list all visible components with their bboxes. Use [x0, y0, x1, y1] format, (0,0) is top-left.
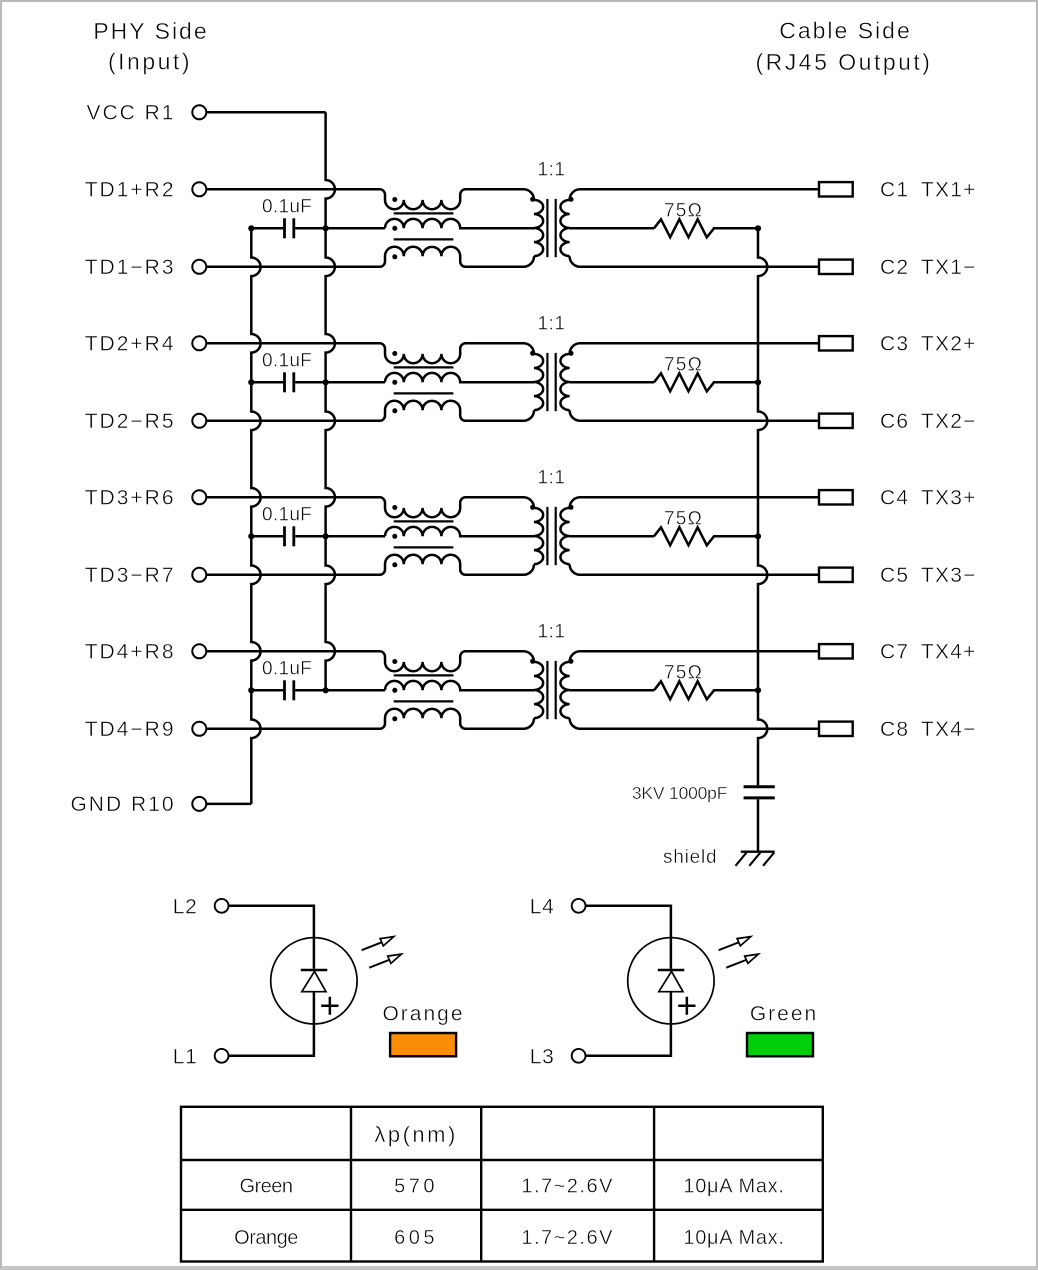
pad C5 TX3− — [819, 568, 853, 582]
transformer 1:1 channel 1 — [530, 159, 573, 257]
wire TX1+ secondary to pad — [570, 189, 819, 200]
pin TD3−R7 — [192, 568, 206, 582]
light arrows Orange — [362, 937, 402, 968]
svg-text:10μA Max.: 10μA Max. — [683, 1176, 784, 1198]
pin L3 — [572, 1049, 586, 1063]
junction resistor output ch1 — [755, 225, 761, 231]
junction resistor output ch2 — [755, 379, 761, 385]
svg-text:Green: Green — [239, 1176, 292, 1198]
svg-text:PHY Side: PHY Side — [93, 18, 208, 44]
svg-text:1.7~2.6V: 1.7~2.6V — [521, 1176, 614, 1198]
wire GND/cap-left vertical bus — [251, 228, 260, 804]
svg-text:75Ω: 75Ω — [664, 508, 703, 529]
pin TD2+R4 — [192, 336, 206, 350]
pad C4 TX3+ — [819, 490, 853, 504]
wire TX4+ secondary to pad — [570, 651, 819, 662]
table row Green — [239, 1176, 784, 1198]
svg-text:L2: L2 — [173, 896, 198, 919]
wire LED to L3 — [586, 992, 671, 1056]
svg-text:TD2−R5: TD2−R5 — [85, 410, 176, 433]
svg-text:TD4−R9: TD4−R9 — [85, 718, 176, 741]
wire collector vertical bus (to shield cap) — [758, 228, 767, 785]
junction VCC / center tap ch1 — [323, 225, 329, 231]
resistor 75Ω channel 4 — [570, 662, 758, 699]
svg-text:L1: L1 — [173, 1046, 198, 1069]
svg-text:TX3−: TX3− — [921, 564, 977, 587]
svg-text:L3: L3 — [530, 1046, 555, 1069]
transformer 1:1 channel 3 — [530, 467, 573, 565]
LED Orange — [271, 938, 357, 1024]
wire TX3- secondary to pad — [570, 564, 819, 575]
svg-text:TD2+R4: TD2+R4 — [85, 333, 176, 356]
svg-text:1:1: 1:1 — [538, 159, 566, 180]
svg-text:C2: C2 — [880, 256, 909, 279]
svg-text:(Input): (Input) — [108, 49, 192, 75]
wire TD4- to choke — [206, 728, 376, 731]
svg-text:C5: C5 — [880, 564, 909, 587]
svg-text:TX1+: TX1+ — [921, 179, 977, 202]
svg-text:VCC R1: VCC R1 — [86, 102, 175, 125]
svg-text:C3: C3 — [880, 333, 909, 356]
pin VCC R1 — [192, 105, 206, 119]
svg-text:C7: C7 — [880, 641, 909, 664]
wire LED to L1 — [229, 992, 314, 1056]
common-mode choke channel 1 — [374, 189, 534, 266]
junction resistor output ch3 — [755, 533, 761, 539]
wire TD3- to choke — [206, 574, 376, 577]
svg-text:TX4−: TX4− — [921, 718, 977, 741]
svg-text:1:1: 1:1 — [538, 313, 566, 334]
svg-text:Green: Green — [750, 1003, 818, 1026]
pin TD1+R2 — [192, 182, 206, 196]
pin TD2−R5 — [192, 414, 206, 428]
svg-text:TX2−: TX2− — [921, 410, 977, 433]
svg-text:TX2+: TX2+ — [921, 333, 977, 356]
common-mode choke channel 2 — [374, 343, 534, 421]
wire TD3+ to choke — [206, 496, 376, 499]
wire TX1- secondary to pad — [570, 256, 819, 267]
wire TD2- to choke — [206, 420, 376, 423]
pad C2 TX1− — [819, 260, 853, 274]
pin L1 — [215, 1049, 229, 1063]
wire TX2+ secondary to pad — [570, 343, 819, 354]
capacitor 3KV 1000pF — [632, 783, 775, 851]
table LED specifications — [181, 1107, 823, 1262]
svg-text:L4: L4 — [530, 896, 555, 919]
pad C8 TX4− — [819, 722, 853, 736]
junction VCC / center tap ch2 — [323, 379, 329, 385]
LED Green — [628, 938, 714, 1024]
svg-text:605: 605 — [394, 1227, 438, 1249]
resistor 75Ω channel 1 — [570, 200, 758, 237]
color swatch Green — [747, 1033, 813, 1056]
wire TD1+ to choke — [206, 188, 376, 191]
svg-text:TD3+R6: TD3+R6 — [85, 487, 176, 510]
pin TD4−R9 — [192, 722, 206, 736]
svg-text:75Ω: 75Ω — [664, 354, 703, 375]
junction resistor output ch4 — [755, 687, 761, 693]
svg-text:TD1−R3: TD1−R3 — [85, 256, 176, 279]
pad C7 TX4+ — [819, 644, 853, 658]
transformer 1:1 channel 4 — [530, 621, 573, 719]
wire GND pin to vertical — [206, 803, 251, 806]
svg-text:570: 570 — [394, 1176, 438, 1198]
pin GND R10 — [192, 797, 206, 811]
svg-text:(RJ45 Output): (RJ45 Output) — [756, 49, 933, 75]
light arrows Green — [719, 937, 759, 968]
svg-text:75Ω: 75Ω — [664, 662, 703, 683]
svg-text:TD1+R2: TD1+R2 — [85, 179, 176, 202]
wire TX2- secondary to pad — [570, 410, 819, 421]
junction VCC / center tap ch3 — [323, 533, 329, 539]
svg-text:75Ω: 75Ω — [664, 200, 703, 221]
wire VCC pin to vertical — [206, 111, 325, 114]
svg-text:10μA Max.: 10μA Max. — [683, 1227, 784, 1249]
svg-text:0.1uF: 0.1uF — [262, 505, 312, 526]
svg-text:TX3+: TX3+ — [921, 487, 977, 510]
pad C1 TX1+ — [819, 182, 853, 196]
wire TX4- secondary to pad — [570, 718, 819, 729]
svg-text:C8: C8 — [880, 718, 909, 741]
wire TD4+ to choke — [206, 650, 376, 653]
svg-text:GND R10: GND R10 — [70, 793, 175, 816]
wire TX3+ secondary to pad — [570, 497, 819, 508]
svg-text:TX4+: TX4+ — [921, 641, 977, 664]
svg-text:1:1: 1:1 — [538, 467, 566, 488]
capacitor 0.1uF channel 2 — [248, 351, 385, 393]
svg-text:3KV 1000pF: 3KV 1000pF — [632, 783, 727, 803]
svg-text:C6: C6 — [880, 410, 909, 433]
wire L2 to LED — [229, 906, 314, 969]
pin TD1−R3 — [192, 260, 206, 274]
capacitor 0.1uF channel 1 — [248, 197, 385, 239]
pad C3 TX2+ — [819, 336, 853, 350]
svg-text:Orange: Orange — [382, 1003, 464, 1026]
pad C6 TX2− — [819, 414, 853, 428]
color swatch Orange — [390, 1033, 456, 1056]
wire L4 to LED — [586, 906, 671, 969]
pin TD3+R6 — [192, 490, 206, 504]
common-mode choke channel 3 — [374, 497, 534, 575]
svg-text:1:1: 1:1 — [538, 621, 566, 642]
svg-text:Orange: Orange — [234, 1227, 298, 1249]
svg-text:shield: shield — [663, 847, 717, 868]
wire VCC vertical bus — [326, 112, 335, 690]
capacitor 0.1uF channel 4 — [248, 659, 385, 701]
svg-text:TD4+R8: TD4+R8 — [85, 641, 176, 664]
transformer 1:1 channel 2 — [530, 313, 573, 411]
capacitor 0.1uF channel 3 — [248, 505, 385, 547]
svg-text:0.1uF: 0.1uF — [262, 659, 312, 680]
resistor 75Ω channel 2 — [570, 354, 758, 391]
chassis ground (shield) — [663, 847, 775, 868]
common-mode choke channel 4 — [374, 651, 534, 729]
svg-text:Cable Side: Cable Side — [779, 17, 912, 43]
pin L4 — [572, 899, 586, 913]
resistor 75Ω channel 3 — [570, 508, 758, 545]
table row Orange — [234, 1227, 784, 1249]
svg-text:C1: C1 — [880, 179, 909, 202]
wire TD1- to choke — [206, 266, 376, 269]
wire TD2+ to choke — [206, 342, 376, 345]
pin TD4+R8 — [192, 644, 206, 658]
svg-text:TX1−: TX1− — [921, 256, 977, 279]
pin L2 — [215, 899, 229, 913]
svg-text:C4: C4 — [880, 487, 909, 510]
svg-text:0.1uF: 0.1uF — [262, 197, 312, 218]
svg-text:λp(nm): λp(nm) — [374, 1122, 457, 1147]
svg-text:1.7~2.6V: 1.7~2.6V — [521, 1227, 614, 1249]
svg-text:TD3−R7: TD3−R7 — [85, 564, 176, 587]
svg-text:0.1uF: 0.1uF — [262, 351, 312, 372]
junction VCC / center tap ch4 — [323, 687, 329, 693]
